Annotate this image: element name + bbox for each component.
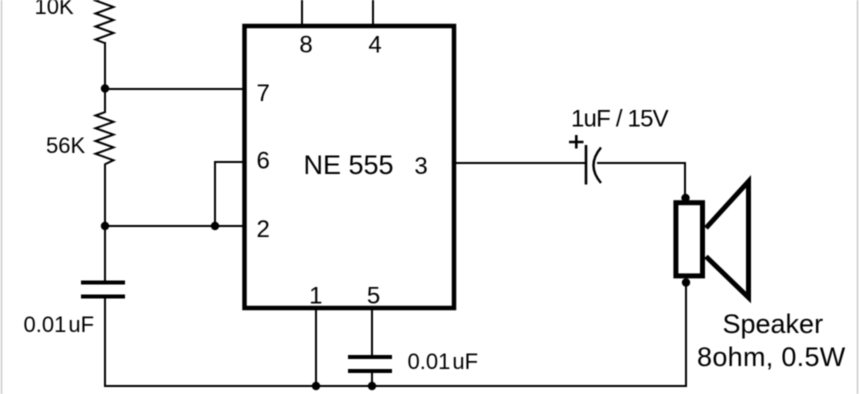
- svg-text:10K: 10K: [35, 0, 74, 19]
- svg-text:3: 3: [414, 153, 427, 180]
- node junction dot A: [101, 84, 109, 92]
- svg-text:6: 6: [257, 148, 270, 175]
- svg-text:8ohm, 0.5W: 8ohm, 0.5W: [697, 342, 846, 372]
- wire capacitor to speaker: [597, 163, 685, 199]
- wire bottom rail: [104, 385, 687, 387]
- svg-text:4: 4: [368, 32, 381, 59]
- resistor R1 10K: [35, 0, 114, 43]
- wire pin 3: [456, 162, 586, 164]
- node junction dot pin1 rail: [312, 382, 320, 390]
- svg-text:2: 2: [257, 216, 270, 243]
- wire pin 1: [315, 308, 317, 387]
- svg-text:0.01uF: 0.01uF: [408, 349, 479, 374]
- wire pin 6 loop: [215, 162, 243, 226]
- node junction dot C: [211, 222, 219, 230]
- wire pin 8: [301, 0, 303, 26]
- right page edge line: [857, 0, 859, 394]
- svg-text:Speaker: Speaker: [723, 309, 824, 339]
- node speaker bottom terminal dot: [682, 278, 690, 286]
- node junction dot B: [101, 222, 109, 230]
- speaker LS1: [676, 182, 749, 298]
- svg-text:7: 7: [257, 80, 270, 107]
- capacitor C2 0.01uF: [348, 308, 478, 387]
- capacitor C1 0.01uF: [24, 226, 126, 387]
- node junction dot pin5 rail: [368, 382, 376, 390]
- capacitor C3 1uF polarized: [569, 106, 669, 185]
- node speaker top terminal dot: [681, 194, 689, 202]
- svg-text:8: 8: [299, 32, 312, 59]
- wire pin 2: [105, 225, 243, 227]
- op-amp timer IC U1 NE555 box: [245, 26, 455, 308]
- wire R1 bottom lead: [104, 42, 106, 89]
- wire pin 4: [372, 0, 374, 26]
- svg-text:0.01uF: 0.01uF: [24, 312, 95, 337]
- svg-text:5: 5: [367, 283, 380, 310]
- svg-text:56K: 56K: [46, 133, 85, 158]
- wire pin 7: [105, 88, 243, 90]
- wire speaker to bottom rail: [685, 283, 687, 387]
- svg-text:1: 1: [309, 283, 322, 310]
- resistor R2 56K: [46, 89, 114, 227]
- svg-text:NE 555: NE 555: [304, 150, 394, 180]
- svg-text:1uF / 15V: 1uF / 15V: [571, 106, 669, 133]
- left page edge line: [1, 0, 3, 394]
